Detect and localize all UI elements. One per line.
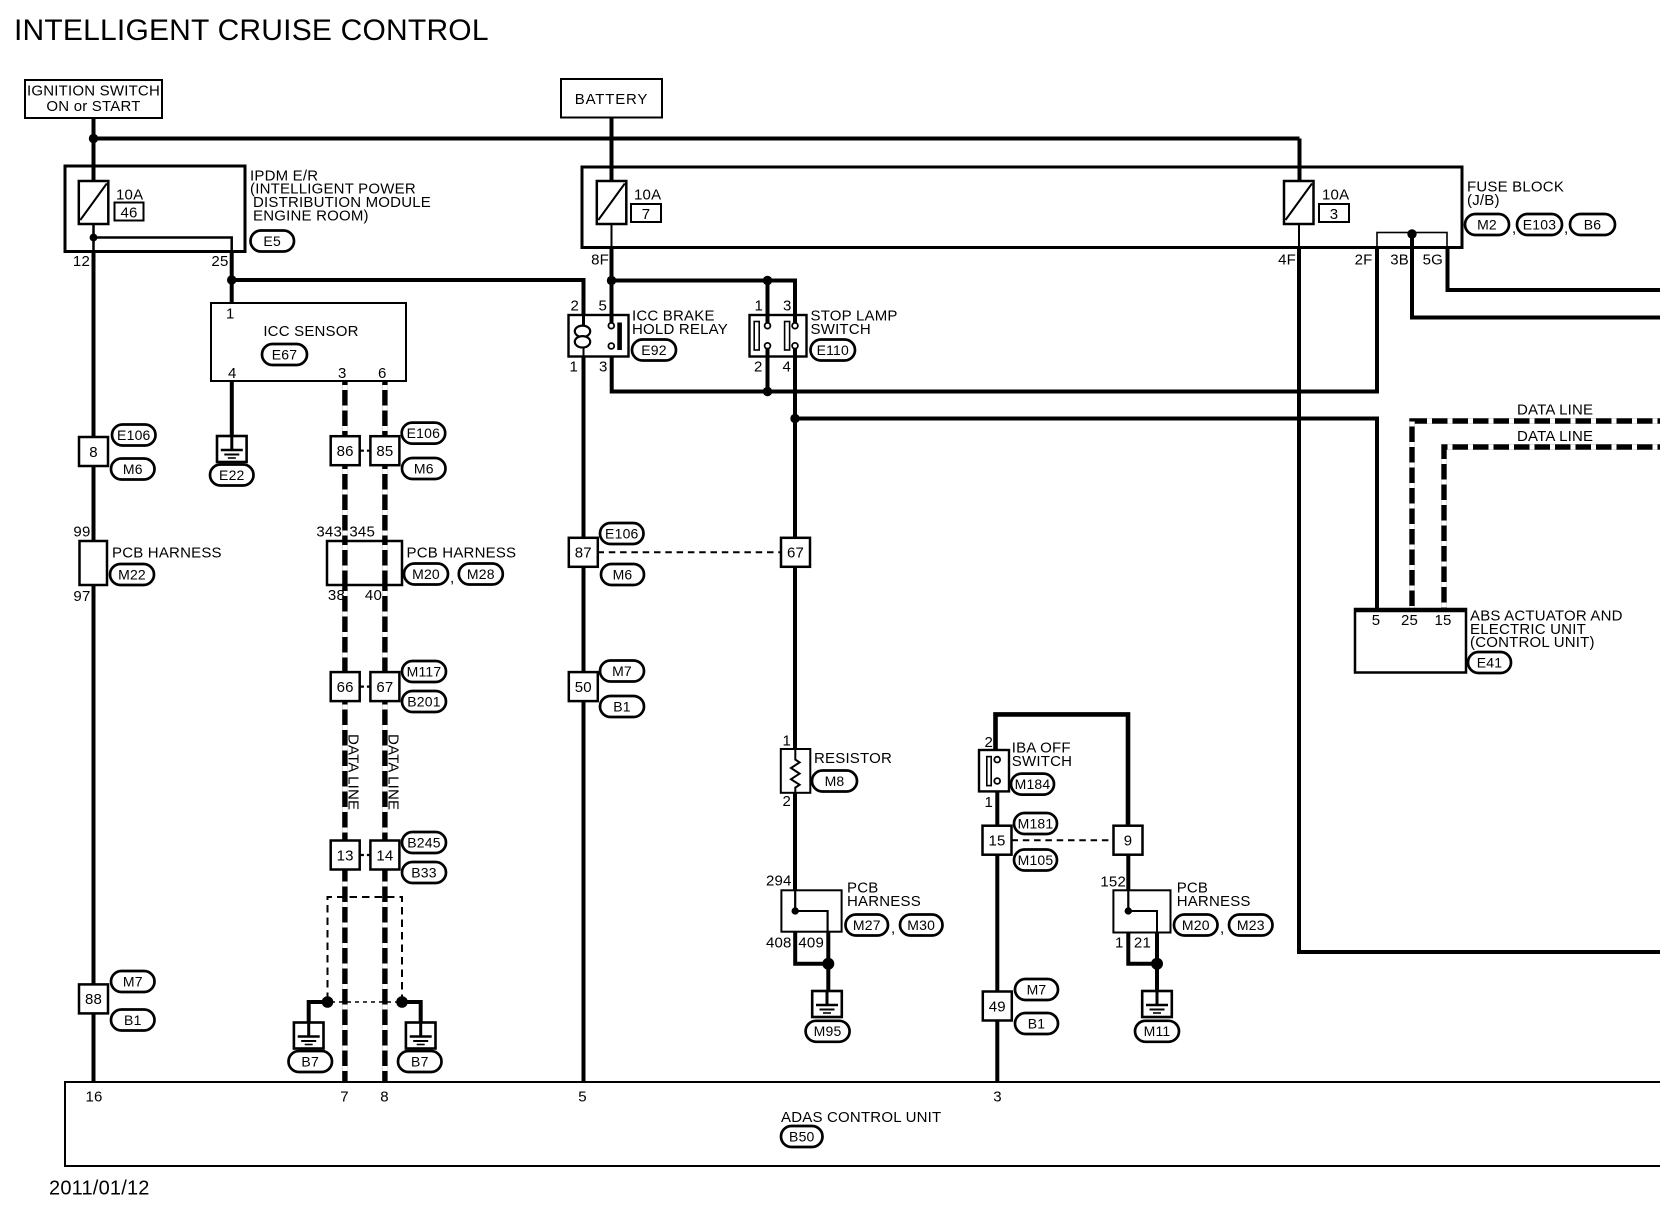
- svg-text:87: 87: [575, 545, 592, 562]
- svg-text:B245: B245: [407, 834, 441, 850]
- svg-text:67: 67: [787, 545, 804, 562]
- svg-text:E106: E106: [407, 425, 441, 441]
- svg-text:M7: M7: [1027, 981, 1047, 997]
- svg-text:,: ,: [891, 920, 895, 937]
- svg-text:12: 12: [73, 253, 90, 270]
- svg-text:3: 3: [599, 359, 608, 376]
- svg-text:M95: M95: [814, 1023, 842, 1039]
- svg-text:PCB HARNESS: PCB HARNESS: [112, 545, 222, 562]
- svg-text:M7: M7: [612, 663, 632, 679]
- svg-text:M22: M22: [118, 566, 146, 582]
- svg-text:2: 2: [754, 359, 763, 376]
- svg-text:M117: M117: [407, 663, 442, 679]
- svg-text:10A: 10A: [1322, 187, 1349, 204]
- svg-text:15: 15: [1434, 612, 1451, 629]
- svg-text:DATA LINE: DATA LINE: [345, 734, 362, 810]
- svg-text:B6: B6: [1584, 216, 1602, 232]
- svg-text:49: 49: [989, 998, 1006, 1015]
- svg-text:21: 21: [1134, 935, 1151, 952]
- svg-text:15: 15: [988, 833, 1005, 850]
- svg-text:E106: E106: [117, 427, 151, 443]
- svg-text:M6: M6: [123, 461, 143, 477]
- svg-text:RESISTOR: RESISTOR: [814, 750, 892, 767]
- svg-text:66: 66: [337, 679, 354, 696]
- svg-text:M7: M7: [123, 973, 143, 989]
- svg-text:B1: B1: [613, 698, 631, 714]
- svg-text:1: 1: [782, 733, 791, 750]
- svg-text:99: 99: [73, 524, 90, 541]
- svg-text:ON or START: ON or START: [46, 98, 140, 115]
- svg-text:M23: M23: [1237, 917, 1265, 933]
- svg-text:5G: 5G: [1423, 252, 1443, 269]
- svg-text:3: 3: [1330, 206, 1339, 223]
- svg-text:1: 1: [754, 298, 763, 315]
- svg-text:B201: B201: [407, 693, 441, 709]
- svg-text:2011/01/12: 2011/01/12: [49, 1178, 150, 1200]
- svg-text:2: 2: [984, 734, 993, 751]
- svg-text:3: 3: [338, 365, 347, 382]
- svg-text:2: 2: [782, 793, 791, 810]
- svg-text:M6: M6: [414, 460, 434, 476]
- svg-text:38: 38: [328, 587, 345, 604]
- svg-text:10A: 10A: [116, 187, 143, 204]
- svg-text:86: 86: [337, 443, 354, 460]
- svg-text:97: 97: [73, 588, 90, 605]
- svg-text:SWITCH: SWITCH: [811, 321, 871, 338]
- svg-text:4: 4: [782, 359, 791, 376]
- svg-text:M27: M27: [853, 917, 881, 933]
- svg-text:E106: E106: [605, 525, 639, 541]
- svg-text:ICC SENSOR: ICC SENSOR: [263, 323, 358, 340]
- svg-text:408: 408: [766, 935, 792, 952]
- svg-text:M184: M184: [1015, 776, 1051, 792]
- svg-text:ENGINE ROOM): ENGINE ROOM): [253, 207, 369, 224]
- svg-text:HARNESS: HARNESS: [1177, 893, 1251, 910]
- svg-text:ADAS CONTROL UNIT: ADAS CONTROL UNIT: [781, 1109, 941, 1126]
- svg-text:345: 345: [349, 524, 375, 541]
- svg-text:5: 5: [578, 1089, 587, 1106]
- svg-text:85: 85: [376, 443, 393, 460]
- svg-text:PCB HARNESS: PCB HARNESS: [407, 545, 517, 562]
- svg-text:,: ,: [1512, 220, 1516, 237]
- svg-text:1: 1: [226, 306, 235, 323]
- svg-text:2F: 2F: [1355, 252, 1373, 269]
- svg-text:1: 1: [1115, 935, 1124, 952]
- svg-text:E103: E103: [1523, 216, 1557, 232]
- svg-text:7: 7: [340, 1089, 349, 1106]
- svg-text:16: 16: [85, 1089, 102, 1106]
- svg-text:SWITCH: SWITCH: [1012, 753, 1072, 770]
- svg-text:46: 46: [120, 205, 137, 222]
- svg-text:HARNESS: HARNESS: [847, 893, 921, 910]
- svg-text:8: 8: [89, 444, 98, 461]
- svg-text:M20: M20: [1182, 917, 1210, 933]
- svg-text:50: 50: [575, 679, 592, 696]
- svg-text:25: 25: [1401, 612, 1418, 629]
- svg-text:7: 7: [642, 206, 651, 223]
- svg-text:,: ,: [1564, 220, 1568, 237]
- svg-text:2: 2: [570, 298, 579, 315]
- svg-text:6: 6: [378, 365, 387, 382]
- svg-text:,: ,: [450, 570, 454, 587]
- svg-text:294: 294: [766, 873, 792, 890]
- svg-text:,: ,: [1220, 920, 1224, 937]
- svg-text:INTELLIGENT CRUISE CONTROL: INTELLIGENT CRUISE CONTROL: [14, 14, 489, 47]
- svg-text:M8: M8: [825, 773, 845, 789]
- svg-text:M6: M6: [613, 566, 633, 582]
- svg-text:B33: B33: [411, 864, 437, 880]
- svg-text:3: 3: [783, 298, 792, 315]
- svg-text:(CONTROL UNIT): (CONTROL UNIT): [1470, 634, 1595, 651]
- svg-text:E67: E67: [272, 346, 298, 362]
- svg-text:DATA LINE: DATA LINE: [1517, 428, 1593, 445]
- svg-text:5: 5: [598, 298, 607, 315]
- svg-text:M20: M20: [412, 566, 440, 582]
- svg-text:HOLD RELAY: HOLD RELAY: [632, 321, 728, 338]
- svg-text:IGNITION SWITCH: IGNITION SWITCH: [27, 83, 160, 100]
- svg-text:DATA LINE: DATA LINE: [385, 734, 402, 810]
- svg-text:(J/B): (J/B): [1467, 192, 1500, 209]
- svg-text:67: 67: [376, 679, 393, 696]
- svg-text:1: 1: [569, 359, 578, 376]
- svg-text:DATA LINE: DATA LINE: [1517, 402, 1593, 419]
- svg-text:M11: M11: [1144, 1023, 1171, 1039]
- svg-text:E22: E22: [219, 467, 245, 483]
- svg-text:1: 1: [984, 794, 993, 811]
- svg-text:409: 409: [798, 935, 824, 952]
- svg-text:M30: M30: [907, 917, 935, 933]
- svg-text:B1: B1: [1028, 1015, 1046, 1031]
- svg-text:E110: E110: [817, 342, 849, 358]
- svg-text:13: 13: [337, 847, 354, 864]
- svg-text:343: 343: [316, 524, 342, 541]
- svg-text:4F: 4F: [1278, 252, 1296, 269]
- svg-text:B1: B1: [124, 1012, 142, 1028]
- svg-text:5: 5: [1372, 612, 1381, 629]
- svg-text:3: 3: [993, 1089, 1002, 1106]
- svg-text:3B: 3B: [1390, 252, 1409, 269]
- svg-text:88: 88: [85, 991, 102, 1008]
- svg-text:E41: E41: [1477, 654, 1503, 670]
- svg-text:4: 4: [228, 365, 237, 382]
- svg-text:25: 25: [211, 253, 228, 270]
- svg-text:10A: 10A: [634, 187, 661, 204]
- svg-text:152: 152: [1100, 874, 1126, 891]
- svg-text:M28: M28: [467, 566, 495, 582]
- svg-text:BATTERY: BATTERY: [575, 91, 648, 108]
- svg-text:E92: E92: [641, 342, 667, 358]
- svg-text:M105: M105: [1018, 852, 1054, 868]
- svg-text:8F: 8F: [591, 252, 609, 269]
- svg-text:M2: M2: [1477, 216, 1497, 232]
- svg-text:B7: B7: [411, 1053, 429, 1069]
- svg-text:14: 14: [376, 847, 393, 864]
- svg-text:8: 8: [380, 1089, 389, 1106]
- svg-text:40: 40: [365, 587, 382, 604]
- svg-text:E5: E5: [263, 233, 281, 249]
- svg-text:M181: M181: [1018, 815, 1054, 831]
- svg-text:B50: B50: [789, 1128, 815, 1144]
- svg-text:9: 9: [1124, 833, 1133, 850]
- svg-text:B7: B7: [301, 1053, 319, 1069]
